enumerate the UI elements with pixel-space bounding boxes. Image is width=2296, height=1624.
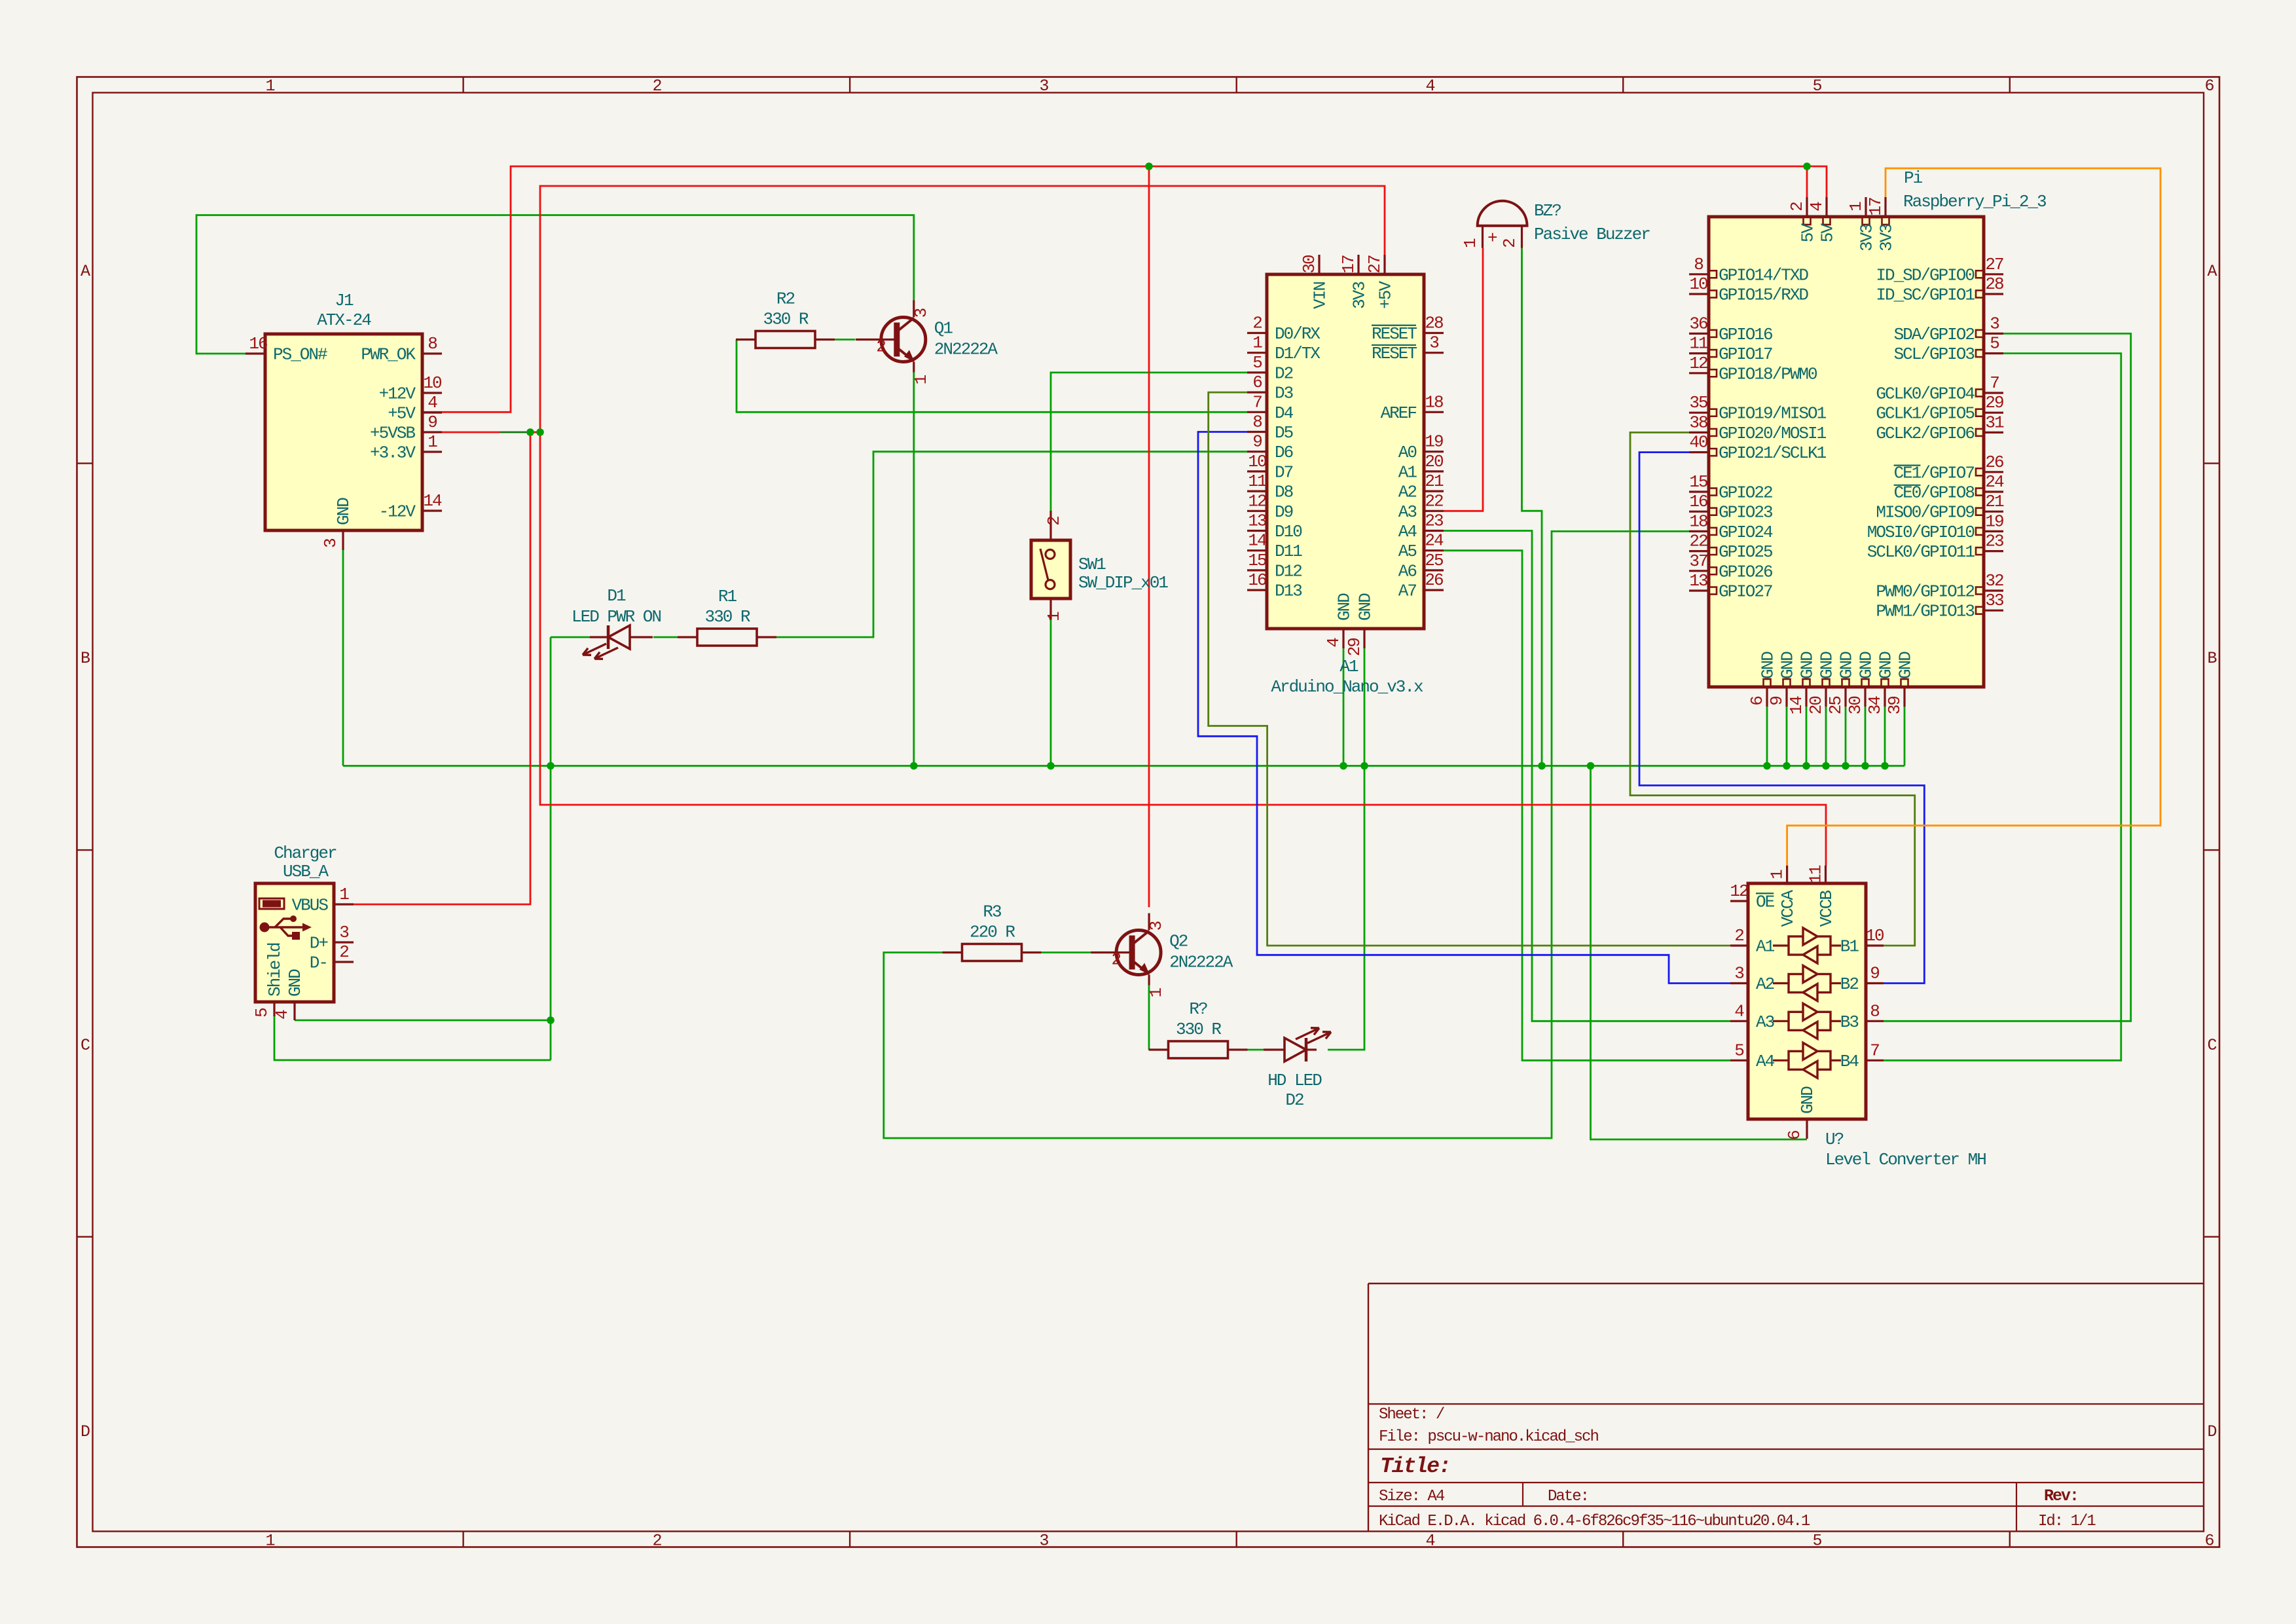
svg-text:13: 13 xyxy=(1689,571,1707,591)
svg-text:Q1: Q1 xyxy=(934,319,953,339)
wire Pi GPIO21 to level converter B2 xyxy=(1639,452,1924,984)
svg-text:A2: A2 xyxy=(1398,483,1417,502)
svg-text:GPIO19/MISO1: GPIO19/MISO1 xyxy=(1719,404,1827,424)
svg-text:A6: A6 xyxy=(1398,561,1417,581)
svg-text:A1: A1 xyxy=(1756,937,1775,957)
IC U? Level Converter MH xyxy=(1730,865,1986,1170)
svg-text:GND: GND xyxy=(334,498,354,525)
wire GND riser x841 (LED / bus / USB gnd) xyxy=(550,637,552,1060)
junction +5V rail / Q2 collector xyxy=(1145,162,1153,170)
svg-text:5: 5 xyxy=(1990,334,1999,354)
svg-text:2: 2 xyxy=(339,942,348,962)
wire GPIO24 net: R3 left - Q2 drive xyxy=(884,531,1689,1138)
svg-text:A3: A3 xyxy=(1756,1012,1774,1032)
svg-text:2: 2 xyxy=(652,1531,661,1550)
svg-text:GPIO27: GPIO27 xyxy=(1719,582,1772,602)
connector J1 ATX-24 xyxy=(246,291,442,550)
wire R2 to Q1 base xyxy=(835,339,855,341)
junction +5V rail / Pi 5V xyxy=(1803,162,1811,170)
svg-text:12: 12 xyxy=(1730,881,1748,901)
svg-text:GCLK0/GPIO4: GCLK0/GPIO4 xyxy=(1876,384,1975,404)
svg-text:Raspberry_Pi_2_3: Raspberry_Pi_2_3 xyxy=(1903,192,2046,212)
svg-text:U?: U? xyxy=(1825,1130,1844,1149)
svg-text:39: 39 xyxy=(1885,697,1904,715)
svg-text:D10: D10 xyxy=(1275,522,1302,542)
svg-text:D: D xyxy=(2207,1422,2216,1441)
svg-text:1: 1 xyxy=(339,885,349,904)
svg-text:1: 1 xyxy=(1461,238,1480,248)
svg-text:KiCad E.D.A. kicad 6.0.4-6f82: KiCad E.D.A. kicad 6.0.4-6f826c9f35~116~… xyxy=(1379,1513,1810,1530)
svg-text:D12: D12 xyxy=(1275,561,1302,581)
svg-text:12: 12 xyxy=(1689,354,1707,373)
svg-text:GND: GND xyxy=(1837,652,1857,679)
svg-text:PS_ON#: PS_ON# xyxy=(273,345,327,365)
svg-text:17: 17 xyxy=(1339,255,1358,274)
svg-text:7: 7 xyxy=(1252,392,1262,412)
wire Q1 emitter to GND bus xyxy=(913,372,915,766)
svg-text:4: 4 xyxy=(1425,1531,1434,1550)
svg-text:-12V: -12V xyxy=(379,502,416,522)
svg-text:J1: J1 xyxy=(335,291,354,310)
wire Arduino D5 to level converter A2 xyxy=(1198,432,1730,984)
wire Arduino D6 to R1 xyxy=(776,452,1247,637)
svg-text:GPIO20/MOSI1: GPIO20/MOSI1 xyxy=(1719,424,1827,443)
svg-text:3: 3 xyxy=(1146,921,1166,931)
svg-text:1: 1 xyxy=(1252,333,1262,353)
svg-text:Pi: Pi xyxy=(1904,168,1923,188)
svg-text:GND: GND xyxy=(1798,652,1817,679)
svg-text:D6: D6 xyxy=(1275,443,1293,462)
svg-text:A4: A4 xyxy=(1756,1052,1775,1071)
svg-text:24: 24 xyxy=(1985,472,2004,492)
svg-text:D2: D2 xyxy=(1275,363,1293,383)
svg-text:27: 27 xyxy=(1365,255,1385,274)
svg-text:C: C xyxy=(2207,1036,2216,1055)
svg-text:D: D xyxy=(81,1422,90,1441)
svg-text:D4: D4 xyxy=(1275,403,1294,423)
svg-text:GND: GND xyxy=(1896,652,1916,679)
svg-text:5: 5 xyxy=(1734,1041,1743,1060)
svg-text:10: 10 xyxy=(423,373,441,393)
svg-text:GND: GND xyxy=(1335,593,1355,621)
wire J1 GND pin3 to bus xyxy=(342,550,344,766)
svg-text:+5V: +5V xyxy=(1376,281,1396,309)
svg-text:11: 11 xyxy=(1248,471,1267,491)
svg-text:14: 14 xyxy=(423,491,442,511)
svg-text:26: 26 xyxy=(1425,570,1443,590)
svg-text:11: 11 xyxy=(1689,334,1708,354)
svg-text:Rev:: Rev: xyxy=(2044,1486,2078,1505)
wire Pi GND pins to bus xyxy=(1766,707,1768,766)
svg-text:Sheet: /: Sheet: / xyxy=(1379,1406,1445,1424)
svg-text:1: 1 xyxy=(1146,987,1166,997)
svg-text:AREF: AREF xyxy=(1381,403,1417,423)
wire Arduino GND pin4 to bus xyxy=(1343,648,1345,766)
svg-text:D-: D- xyxy=(310,953,327,973)
svg-text:Shield: Shield xyxy=(265,943,285,997)
svg-text:29: 29 xyxy=(1985,393,2003,413)
svg-text:GCLK2/GPIO6: GCLK2/GPIO6 xyxy=(1876,424,1974,443)
svg-text:3: 3 xyxy=(321,539,340,548)
svg-text:18: 18 xyxy=(1689,511,1707,531)
svg-text:GPIO17: GPIO17 xyxy=(1719,344,1772,364)
svg-text:GPIO23: GPIO23 xyxy=(1719,503,1772,523)
svg-text:3: 3 xyxy=(1734,964,1743,984)
transistor Q2 2N2222A xyxy=(1091,913,1233,998)
svg-text:7: 7 xyxy=(1990,373,1999,393)
svg-text:D1: D1 xyxy=(607,586,626,606)
svg-text:SW_DIP_x01: SW_DIP_x01 xyxy=(1078,573,1168,593)
svg-text:D11: D11 xyxy=(1275,542,1302,561)
svg-text:22: 22 xyxy=(1425,491,1443,511)
svg-text:30: 30 xyxy=(1300,255,1319,274)
svg-text:220 R: 220 R xyxy=(970,923,1015,942)
svg-text:12: 12 xyxy=(1248,491,1266,511)
svg-text:6: 6 xyxy=(1785,1131,1804,1140)
svg-text:D9: D9 xyxy=(1275,502,1293,522)
svg-text:A5: A5 xyxy=(1398,542,1417,561)
wire Arduino A3 to buzzer pin1 xyxy=(1444,248,1483,511)
svg-text:3: 3 xyxy=(339,923,348,942)
svg-text:Id: 1/1: Id: 1/1 xyxy=(2038,1513,2096,1530)
svg-text:GND: GND xyxy=(1876,652,1896,679)
svg-text:19: 19 xyxy=(1985,511,2003,531)
svg-text:A7: A7 xyxy=(1398,581,1417,601)
svg-text:GPIO15/RXD: GPIO15/RXD xyxy=(1719,286,1808,305)
svg-text:26: 26 xyxy=(1985,452,2003,472)
svg-text:D13: D13 xyxy=(1275,581,1302,601)
svg-text:2: 2 xyxy=(652,77,661,96)
svg-text:RESET: RESET xyxy=(1372,324,1417,344)
svg-text:19: 19 xyxy=(1425,432,1443,452)
svg-text:B: B xyxy=(2207,649,2217,668)
svg-text:GPIO26: GPIO26 xyxy=(1719,562,1772,581)
svg-text:3V3: 3V3 xyxy=(1350,282,1370,309)
wire GND bus to level converter GND xyxy=(1591,766,1808,1140)
svg-text:2: 2 xyxy=(1787,202,1807,212)
wire Pi GPIO20 to level converter B1 xyxy=(1630,432,1915,946)
svg-text:3V3: 3V3 xyxy=(1877,225,1897,251)
svg-text:40: 40 xyxy=(1689,433,1707,452)
LED D1 xyxy=(583,625,653,659)
svg-text:SCL/GPIO3: SCL/GPIO3 xyxy=(1894,344,1975,364)
svg-text:R3: R3 xyxy=(983,902,1001,922)
wire Arduino D2 to SW1 pin2 xyxy=(1051,373,1247,511)
svg-text:28: 28 xyxy=(1985,274,2003,294)
transistor Q1 2N2222A xyxy=(856,301,998,385)
svg-text:GPIO22: GPIO22 xyxy=(1719,483,1772,503)
svg-text:1: 1 xyxy=(1846,202,1866,212)
svg-text:6: 6 xyxy=(1747,697,1767,706)
LED D2 xyxy=(1264,1028,1331,1061)
svg-text:GPIO18/PWM0: GPIO18/PWM0 xyxy=(1719,364,1817,384)
svg-text:B3: B3 xyxy=(1840,1012,1859,1032)
svg-text:Title:: Title: xyxy=(1380,1454,1450,1479)
wire R3 to Q2 base xyxy=(1042,951,1091,953)
wire +5V rail: J1 pin4 to Pi 5V pins xyxy=(422,166,1827,412)
svg-text:5: 5 xyxy=(1252,353,1262,373)
svg-text:20: 20 xyxy=(1425,452,1443,471)
svg-text:D5: D5 xyxy=(1275,423,1293,443)
svg-text:+3.3V: +3.3V xyxy=(370,443,416,463)
wire Arduino GND pin29 / D2 cathode riser xyxy=(1328,648,1364,1050)
svg-text:Charger: Charger xyxy=(274,843,337,863)
svg-text:Date:: Date: xyxy=(1548,1488,1588,1505)
svg-text:21: 21 xyxy=(1425,471,1444,491)
wire Arduino A4 to level converter A3 xyxy=(1444,531,1730,1022)
wire +5VSB to level converter VCCB xyxy=(540,432,1826,866)
svg-text:4: 4 xyxy=(272,1010,292,1020)
svg-text:ATX-24: ATX-24 xyxy=(317,310,371,330)
svg-text:25: 25 xyxy=(1425,551,1443,570)
svg-text:2: 2 xyxy=(1500,239,1520,248)
svg-text:ID_SC/GPIO1: ID_SC/GPIO1 xyxy=(1876,286,1975,305)
svg-text:Size: A4: Size: A4 xyxy=(1379,1488,1445,1505)
svg-text:VCCB: VCCB xyxy=(1817,891,1836,927)
svg-text:21: 21 xyxy=(1985,492,2004,511)
svg-text:B: B xyxy=(81,649,90,668)
junction +5VSB/x825 xyxy=(536,428,544,436)
svg-text:5: 5 xyxy=(252,1008,272,1018)
svg-text:3: 3 xyxy=(1429,333,1438,353)
svg-text:+12V: +12V xyxy=(379,384,416,404)
svg-text:20: 20 xyxy=(1806,697,1826,715)
svg-text:5V: 5V xyxy=(1798,223,1818,243)
wire +5VSB to Arduino +5V pin27 xyxy=(540,186,1385,432)
svg-text:D+: D+ xyxy=(310,934,329,953)
svg-text:8: 8 xyxy=(1252,413,1262,432)
svg-text:3: 3 xyxy=(1039,1531,1048,1550)
svg-text:A4: A4 xyxy=(1398,522,1417,542)
svg-text:2: 2 xyxy=(1252,314,1262,333)
svg-text:6: 6 xyxy=(2204,1531,2214,1550)
svg-text:4: 4 xyxy=(1425,77,1434,96)
svg-text:11: 11 xyxy=(1806,865,1826,884)
svg-text:1: 1 xyxy=(265,77,274,96)
svg-text:17: 17 xyxy=(1866,198,1886,216)
svg-text:A0: A0 xyxy=(1398,443,1417,462)
svg-text:CE1/GPIO7: CE1/GPIO7 xyxy=(1894,463,1975,483)
svg-text:3: 3 xyxy=(911,308,931,318)
svg-text:31: 31 xyxy=(1985,413,2004,432)
wire USB GND pin4 xyxy=(295,1020,551,1022)
svg-text:8: 8 xyxy=(428,334,437,354)
svg-text:13: 13 xyxy=(1248,511,1266,531)
svg-text:14: 14 xyxy=(1787,696,1806,715)
svg-text:15: 15 xyxy=(1248,551,1266,570)
svg-text:D0/RX: D0/RX xyxy=(1275,324,1321,344)
svg-text:23: 23 xyxy=(1425,511,1443,531)
svg-text:GND: GND xyxy=(1817,652,1837,679)
svg-text:Q2: Q2 xyxy=(1169,932,1188,951)
svg-text:GPIO24: GPIO24 xyxy=(1719,523,1773,542)
resistor R3 xyxy=(943,902,1042,961)
wire Q2 emitter to R? xyxy=(1148,986,1150,1050)
svg-text:23: 23 xyxy=(1985,532,2003,551)
svg-text:A: A xyxy=(81,262,90,281)
svg-text:16: 16 xyxy=(1689,492,1707,511)
wire Pi 3V3 pin17 to level converter VCCA xyxy=(1787,168,2160,866)
connector Charger USB_A xyxy=(252,843,354,1020)
svg-text:R2: R2 xyxy=(776,289,795,309)
svg-text:LED PWR ON: LED PWR ON xyxy=(572,607,661,627)
svg-text:GPIO14/TXD: GPIO14/TXD xyxy=(1719,265,1808,285)
wire D1 cathode to GND riser xyxy=(551,637,592,638)
svg-text:5: 5 xyxy=(1812,1531,1821,1550)
svg-text:9: 9 xyxy=(428,413,437,432)
svg-text:Pasive Buzzer: Pasive Buzzer xyxy=(1534,225,1650,244)
svg-text:8: 8 xyxy=(1870,1001,1879,1021)
wire Pi SDA/GPIO2 to level converter B3 xyxy=(1884,333,2131,1021)
svg-text:CE0/GPIO8: CE0/GPIO8 xyxy=(1894,483,1975,503)
svg-text:SW1: SW1 xyxy=(1078,555,1106,574)
svg-text:+5V: +5V xyxy=(388,404,416,424)
svg-text:35: 35 xyxy=(1689,393,1707,413)
svg-text:14: 14 xyxy=(1248,531,1267,551)
svg-text:Level Converter MH: Level Converter MH xyxy=(1825,1150,1986,1170)
svg-text:GPIO16: GPIO16 xyxy=(1719,325,1772,344)
module A1 Arduino_Nano_v3.x xyxy=(1247,255,1444,697)
svg-text:B1: B1 xyxy=(1840,937,1859,957)
svg-text:330 R: 330 R xyxy=(1176,1020,1221,1039)
wire +5VSB junction to x825 xyxy=(530,432,540,434)
svg-text:VCCA: VCCA xyxy=(1778,890,1798,927)
svg-text:16: 16 xyxy=(1248,570,1266,590)
resistor R? xyxy=(1149,999,1248,1058)
svg-text:22: 22 xyxy=(1689,532,1707,551)
svg-text:A2: A2 xyxy=(1756,974,1774,994)
wire buzzer pin2 to GND bus xyxy=(1522,248,1542,766)
svg-text:29: 29 xyxy=(1345,638,1364,657)
svg-text:A3: A3 xyxy=(1398,502,1417,522)
svg-text:5: 5 xyxy=(1812,77,1821,96)
svg-text:GND: GND xyxy=(1356,593,1376,621)
svg-text:2: 2 xyxy=(1734,926,1743,946)
switch SW1 SW_DIP_x01 xyxy=(1031,511,1168,621)
junction GND bus dots xyxy=(547,762,555,770)
svg-text:5V: 5V xyxy=(1818,223,1838,243)
svg-text:330 R: 330 R xyxy=(704,607,750,627)
svg-text:RESET: RESET xyxy=(1372,344,1417,363)
svg-text:File: pscu-w-nano.kicad_sch: File: pscu-w-nano.kicad_sch xyxy=(1379,1428,1598,1446)
svg-text:GPIO21/SCLK1: GPIO21/SCLK1 xyxy=(1719,443,1827,463)
svg-text:B4: B4 xyxy=(1840,1052,1859,1071)
svg-text:D1/TX: D1/TX xyxy=(1275,344,1321,363)
svg-text:30: 30 xyxy=(1846,697,1865,715)
resistor R1 xyxy=(678,587,776,646)
wire SW1 pin1 to GND bus xyxy=(1050,620,1052,766)
svg-text:7: 7 xyxy=(1870,1041,1879,1060)
svg-text:36: 36 xyxy=(1689,314,1707,333)
junction +5VSB/USB xyxy=(526,428,534,436)
wire Pi SCL/GPIO3 to level converter B4 xyxy=(1884,354,2121,1061)
svg-text:GND: GND xyxy=(1857,652,1876,679)
svg-text:37: 37 xyxy=(1689,551,1707,571)
svg-text:1: 1 xyxy=(265,1531,274,1550)
svg-text:GCLK1/GPIO5: GCLK1/GPIO5 xyxy=(1876,404,1974,424)
svg-text:2N2222A: 2N2222A xyxy=(1169,953,1233,972)
svg-text:9: 9 xyxy=(1870,964,1879,984)
svg-text:27: 27 xyxy=(1985,255,2003,274)
svg-text:3V3: 3V3 xyxy=(1857,225,1877,251)
wire +5V rail to Q2 collector xyxy=(1148,166,1150,907)
svg-text:34: 34 xyxy=(1865,696,1885,715)
svg-text:A1: A1 xyxy=(1339,657,1358,676)
svg-text:3: 3 xyxy=(1039,77,1048,96)
svg-text:4: 4 xyxy=(428,393,437,413)
svg-text:4: 4 xyxy=(1734,1001,1744,1021)
svg-text:MOSI0/GPIO10: MOSI0/GPIO10 xyxy=(1867,523,1975,542)
svg-text:6: 6 xyxy=(1252,373,1262,392)
wire R2 left to Arduino D4 xyxy=(737,340,1247,413)
svg-text:USB_A: USB_A xyxy=(283,862,329,881)
buzzer BZ? Pasive Buzzer xyxy=(1461,201,1650,248)
svg-text:2N2222A: 2N2222A xyxy=(934,340,998,360)
wire Pi 5V pin2 drop xyxy=(1806,166,1808,197)
svg-text:1: 1 xyxy=(1044,612,1064,621)
svg-text:8: 8 xyxy=(1694,255,1703,274)
svg-text:SCLK0/GPIO11: SCLK0/GPIO11 xyxy=(1867,542,1975,562)
svg-text:15: 15 xyxy=(1689,472,1707,492)
svg-text:GND: GND xyxy=(285,969,305,997)
svg-text:+: + xyxy=(1487,229,1497,248)
svg-text:R?: R? xyxy=(1189,999,1207,1019)
title block xyxy=(1368,1283,2204,1532)
svg-text:D8: D8 xyxy=(1275,483,1293,502)
wire USB Shield pin5 loop xyxy=(274,1016,551,1060)
svg-text:HD LED: HD LED xyxy=(1267,1071,1322,1090)
wire PS_ON# net: J1 pin16 to Q1 collector xyxy=(196,215,914,354)
svg-text:R1: R1 xyxy=(718,587,737,606)
wire +5VSB to USB VBUS xyxy=(353,432,530,904)
svg-text:A: A xyxy=(2207,262,2217,281)
svg-text:4: 4 xyxy=(1807,202,1827,212)
svg-text:1: 1 xyxy=(911,375,931,384)
module Pi Raspberry_Pi_2_3 xyxy=(1689,168,2046,714)
junction USB GND xyxy=(547,1016,555,1024)
svg-text:28: 28 xyxy=(1425,314,1443,333)
svg-text:38: 38 xyxy=(1689,413,1707,432)
svg-text:18: 18 xyxy=(1425,392,1443,412)
svg-text:33: 33 xyxy=(1985,591,2003,610)
wire GND bus xyxy=(343,765,1904,767)
svg-text:2: 2 xyxy=(876,337,885,357)
svg-text:9: 9 xyxy=(1252,432,1262,452)
wire +5VSB green segment xyxy=(500,432,530,434)
svg-text:C: C xyxy=(81,1036,90,1055)
svg-text:GND: GND xyxy=(1798,1086,1817,1114)
svg-text:6: 6 xyxy=(2204,77,2214,96)
svg-text:1: 1 xyxy=(1768,870,1787,879)
svg-text:VIN: VIN xyxy=(1311,282,1330,309)
svg-text:24: 24 xyxy=(1425,531,1444,551)
svg-text:4: 4 xyxy=(1324,638,1343,648)
svg-text:2: 2 xyxy=(1111,950,1120,970)
wire Arduino A5 to level converter A4 xyxy=(1444,551,1730,1061)
resistor R2 xyxy=(736,289,835,348)
svg-text:25: 25 xyxy=(1826,697,1846,715)
svg-text:16: 16 xyxy=(249,334,267,354)
svg-text:SDA/GPIO2: SDA/GPIO2 xyxy=(1894,325,1975,344)
svg-text:330 R: 330 R xyxy=(763,310,808,329)
svg-text:GND: GND xyxy=(1778,652,1798,679)
svg-text:D7: D7 xyxy=(1275,462,1293,482)
svg-text:MISO0/GPIO9: MISO0/GPIO9 xyxy=(1876,503,1974,523)
wire Arduino D3 to level converter A1 xyxy=(1209,392,1730,946)
svg-text:PWM0/GPIO12: PWM0/GPIO12 xyxy=(1876,582,1974,602)
svg-text:1: 1 xyxy=(428,432,437,452)
wire R? to D2 anode xyxy=(1246,1049,1264,1051)
